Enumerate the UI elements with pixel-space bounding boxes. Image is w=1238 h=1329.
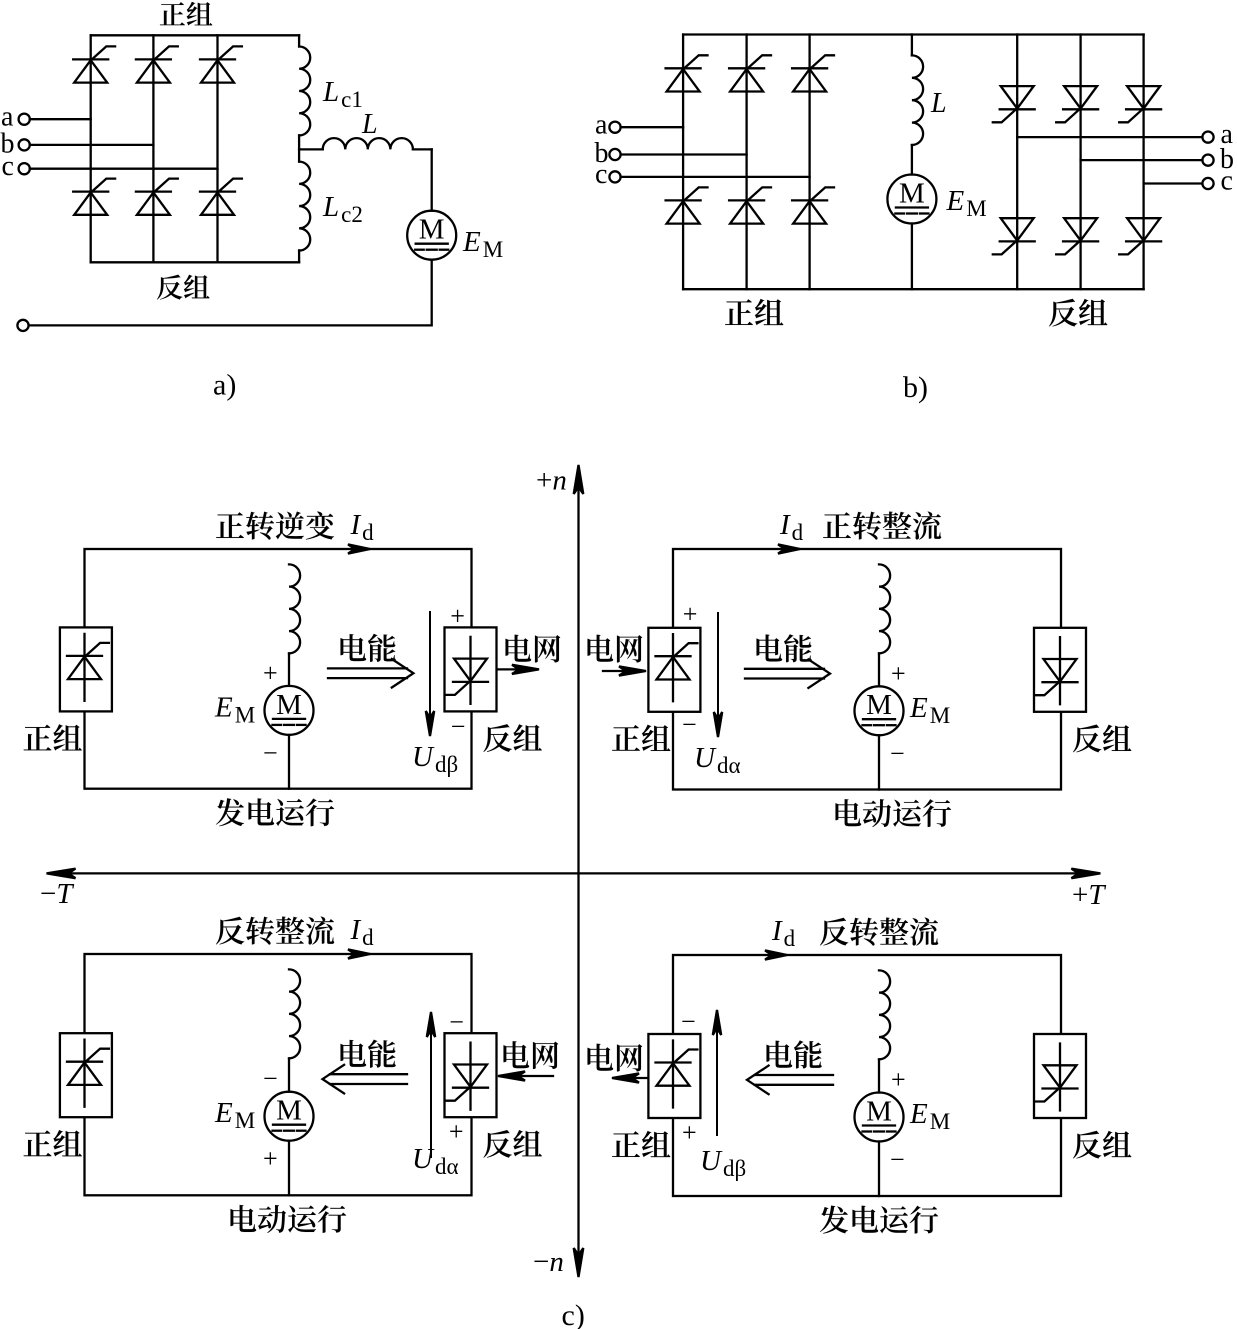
svg-text:EM: EM (462, 226, 503, 262)
arrow Id on top wire (348, 544, 370, 553)
arrow to grid QIV (612, 1073, 647, 1082)
double arrow energy flow (328, 667, 407, 669)
terminal a (19, 114, 30, 125)
converter box 反组 (1034, 1034, 1086, 1118)
label 正组 (forward group) circuit a (160, 2, 213, 26)
label 反组 (483, 1130, 541, 1158)
svg-text:−: − (449, 1008, 464, 1037)
label 反组 (483, 724, 541, 752)
svg-text:c: c (1221, 166, 1233, 197)
thyristor b forward bottom 1 (666, 187, 708, 223)
converter box 正组 (60, 627, 112, 711)
wire quadrant loop (85, 549, 472, 789)
thyristor in 正组 box (656, 1041, 698, 1108)
thyristor b reverse top 3 (1119, 86, 1161, 122)
wire quadrant loop (673, 549, 1061, 790)
svg-text:EM: EM (946, 185, 987, 221)
svg-text:M: M (276, 689, 302, 721)
wire: bridge a phase leg 3 (216, 35, 218, 262)
motor M (265, 1092, 314, 1141)
wire L to motor (431, 149, 433, 210)
svg-text:−: − (263, 738, 278, 767)
arrow Id on top wire (765, 950, 787, 959)
wire: bridge a phase leg 1 (90, 35, 92, 262)
smoothing inductor (879, 970, 890, 1059)
wire motor b to bottom (911, 224, 913, 290)
svg-text:M: M (419, 214, 445, 246)
svg-text:+: + (449, 1117, 464, 1146)
arrow Uda QI (714, 613, 722, 737)
wire: b reverse leg 1 (1016, 35, 1018, 290)
label 反组 circuit b (1049, 299, 1107, 327)
thyristor a top row 1 (73, 46, 115, 82)
double arrow energy flow (330, 1073, 407, 1075)
svg-text:+: + (263, 1144, 278, 1173)
arrow Id on top wire (348, 949, 370, 958)
svg-text:M: M (899, 178, 925, 210)
svg-text:Id: Id (350, 509, 375, 545)
svg-text:c: c (595, 159, 607, 190)
thyristor in 正组 box (67, 1040, 109, 1107)
label 反组 (1073, 1131, 1131, 1159)
terminal b-out-c (1202, 178, 1213, 189)
wire b output c (1144, 182, 1203, 184)
label 正组 (24, 1130, 82, 1156)
thyristor a bottom row 2 (136, 179, 178, 215)
inductor Lc1 (299, 35, 310, 149)
inductor Lc2 (299, 149, 310, 262)
label 正组 (612, 1131, 670, 1157)
wire phase b input (30, 144, 154, 146)
wire: bridge a bottom bus (91, 261, 299, 263)
motor M circuit a (407, 211, 456, 260)
axis arrowhead left (47, 869, 76, 879)
svg-text:M: M (866, 689, 892, 721)
terminal c (19, 163, 30, 174)
arrow Id on top wire (778, 544, 800, 553)
label title 反转整流 (820, 917, 938, 945)
wire: b forward leg 1 (682, 35, 684, 290)
label 电能 (766, 1040, 821, 1068)
wire b output b (1081, 159, 1203, 161)
smoothing inductor (289, 564, 300, 653)
thyristor b forward top 2 (729, 55, 771, 91)
wire: b forward leg 3 (808, 35, 810, 290)
axis T horizontal (51, 872, 1096, 874)
converter box 正组 (648, 628, 700, 712)
svg-text:Lc2: Lc2 (322, 191, 363, 227)
double arrow energy flow (755, 1074, 833, 1076)
axis +n vertical (577, 470, 579, 1272)
wire b phase c (621, 176, 810, 178)
svg-text:−: − (451, 712, 466, 741)
arrow Udb QIV (713, 1010, 721, 1135)
wire: bridge b bottom bus (683, 288, 1144, 290)
wire phase c input (30, 168, 218, 170)
svg-text:a: a (595, 109, 608, 140)
converter box 正组 (60, 1033, 112, 1117)
converter box 反组 (445, 1033, 497, 1117)
terminal b-out-a (1202, 132, 1213, 143)
label 电网 QII (505, 635, 560, 663)
arrow from grid QI (603, 666, 646, 675)
label 电能 (340, 634, 395, 662)
svg-text:c): c) (562, 1299, 585, 1329)
label 电能 (340, 1040, 395, 1068)
arrow Uda QIII (427, 1012, 435, 1157)
terminal b-out-b (1202, 155, 1213, 166)
motor M circuit b (887, 175, 936, 224)
svg-text:M: M (276, 1095, 302, 1127)
label 反组 (reverse group) circuit a (157, 275, 210, 300)
label caption 发电运行 (820, 1206, 938, 1234)
axis arrowhead down (574, 1248, 584, 1277)
label title 反转整流 (216, 916, 334, 944)
terminal b-c (609, 171, 620, 182)
thyristor b forward bottom 2 (729, 187, 771, 223)
thyristor a top row 3 (200, 46, 242, 82)
label 电网 QIV (587, 1044, 642, 1072)
svg-text:−: − (681, 1007, 696, 1036)
svg-text:+: + (683, 600, 698, 629)
svg-text:EM: EM (909, 1098, 950, 1134)
svg-text:EM: EM (909, 692, 950, 728)
thyristor b forward bottom 3 (792, 187, 834, 223)
wire quadrant loop (85, 954, 472, 1195)
svg-text:+T: +T (1072, 879, 1106, 911)
svg-text:−: − (263, 1064, 278, 1093)
svg-text:Udβ: Udβ (412, 741, 458, 777)
double arrow energy flow (745, 668, 824, 670)
svg-text:c: c (2, 151, 14, 182)
thyristor b reverse bottom 1 (993, 218, 1035, 254)
wire b phase a (621, 126, 684, 128)
terminal b-b (609, 149, 620, 160)
thyristor a bottom row 1 (73, 179, 115, 215)
wire inductor to motor (878, 1059, 880, 1092)
inductor L circuit a (299, 138, 432, 149)
wire inductor to motor (878, 653, 880, 686)
axis arrowhead right (1071, 869, 1100, 879)
motor M (855, 686, 904, 735)
thyristor b reverse top 1 (993, 86, 1035, 122)
wire: bridge a top bus (91, 34, 299, 36)
svg-text:L: L (361, 109, 378, 140)
svg-text:EM: EM (214, 1097, 255, 1133)
wire b phase b (621, 153, 747, 155)
converter box 反组 (1034, 628, 1086, 712)
svg-text:−: − (890, 1145, 905, 1174)
wire: bridge b top bus (683, 33, 1144, 35)
svg-text:+: + (263, 658, 278, 687)
wire: b reverse leg 3 (1142, 35, 1144, 290)
wire motor to bottom (878, 1142, 880, 1197)
svg-text:Udα: Udα (412, 1143, 459, 1179)
svg-text:+: + (682, 1118, 697, 1147)
thyristor b reverse bottom 2 (1056, 218, 1098, 254)
thyristor b forward top 1 (666, 55, 708, 91)
svg-text:−: − (890, 739, 905, 768)
label caption 发电运行 (216, 798, 334, 826)
label 电网 QIII (503, 1041, 558, 1069)
svg-text:Lc1: Lc1 (322, 76, 363, 112)
svg-text:b): b) (903, 371, 928, 404)
svg-text:Udβ: Udβ (700, 1145, 746, 1181)
thyristor a top row 2 (136, 46, 178, 82)
svg-text:+n: +n (536, 465, 567, 497)
wire motor to bottom terminal (29, 260, 432, 326)
svg-text:Id: Id (350, 914, 375, 950)
converter box 正组 (648, 1034, 700, 1118)
wire: b reverse leg 2 (1079, 35, 1081, 290)
svg-text:a): a) (213, 369, 236, 402)
svg-text:−n: −n (533, 1246, 564, 1278)
wire phase a input (30, 118, 91, 120)
thyristor in 反组 box (446, 637, 488, 704)
wire inductor to motor (288, 1058, 290, 1091)
motor M (855, 1093, 904, 1142)
label 正组 (612, 725, 670, 751)
terminal b (19, 139, 30, 150)
svg-text:M: M (866, 1096, 892, 1128)
wire motor to bottom (288, 735, 290, 789)
svg-text:−T: −T (40, 878, 74, 910)
thyristor in 反组 box (446, 1043, 488, 1110)
thyristor b reverse top 2 (1056, 86, 1098, 122)
svg-text:Id: Id (779, 509, 804, 545)
thyristor in 反组 box (1036, 1044, 1078, 1111)
thyristor b reverse bottom 3 (1119, 218, 1161, 254)
svg-text:−: − (682, 710, 697, 739)
svg-text:+: + (450, 602, 465, 631)
label caption 电动运行 (835, 799, 951, 827)
svg-text:+: + (891, 659, 906, 688)
label title 正转整流 (823, 511, 941, 539)
axis arrowhead up (574, 465, 584, 494)
thyristor a bottom row 3 (200, 179, 242, 215)
arrow to grid QII (497, 665, 539, 674)
converter box 反组 (445, 627, 497, 711)
wire motor to bottom (878, 735, 880, 789)
thyristor b forward top 3 (792, 55, 834, 91)
thyristor in 反组 box (1036, 637, 1078, 704)
label 电能 (756, 634, 811, 662)
label title 正转逆变 (216, 511, 334, 539)
wire quadrant loop (673, 955, 1061, 1196)
svg-text:+: + (891, 1065, 906, 1094)
svg-text:L: L (930, 88, 947, 119)
label caption 电动运行 (230, 1205, 346, 1233)
wire b output a (1017, 136, 1202, 138)
smoothing inductor (289, 969, 300, 1058)
smoothing inductor (879, 564, 890, 653)
svg-text:Id: Id (771, 915, 796, 951)
arrow from grid QIII (498, 1071, 553, 1080)
wire: b forward leg 2 (745, 35, 747, 290)
thyristor in 正组 box (67, 634, 109, 701)
label 正组 (24, 724, 82, 750)
motor M (265, 686, 314, 735)
wire motor to bottom (288, 1141, 290, 1196)
wire inductor to motor (288, 653, 290, 686)
terminal b-a (609, 122, 620, 133)
arrow Udb QII (426, 612, 434, 736)
label 反组 (1073, 725, 1131, 753)
terminal bottom left (17, 320, 28, 331)
label 正组 circuit b (725, 299, 783, 325)
svg-text:EM: EM (214, 691, 255, 727)
svg-text:Udα: Udα (694, 742, 741, 778)
label 电网 QI (587, 635, 642, 663)
thyristor in 正组 box (656, 634, 698, 701)
wire: bridge a phase leg 2 (152, 35, 154, 262)
inductor L circuit b (912, 35, 923, 175)
